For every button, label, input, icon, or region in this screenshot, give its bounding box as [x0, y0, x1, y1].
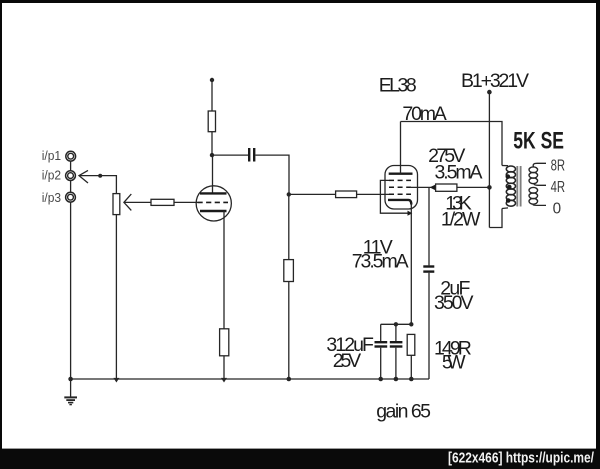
- node B1+ terminal: [487, 90, 492, 95]
- svg-text:25V: 25V: [333, 350, 362, 372]
- wire 2uF to ground rail: [428, 273, 430, 379]
- node V1 plate junction: [210, 153, 214, 157]
- node cathode rail dot 2: [409, 322, 413, 326]
- wire 149R to rail: [410, 355, 412, 379]
- potentiometer VR1: [113, 194, 120, 215]
- wire cathode resistor to rail: [223, 356, 225, 379]
- resistor cathode V1: [220, 329, 229, 356]
- wire supply to plate resistor: [211, 80, 213, 111]
- svg-text:70mA: 70mA: [402, 103, 446, 125]
- node B1 screen junction: [487, 185, 492, 190]
- transformer T1 primary winding: [506, 166, 515, 206]
- wire i/p2 selector to pot top: [79, 176, 116, 194]
- connector i/p2 jack: [66, 171, 76, 181]
- resistor plate load V1: [208, 111, 215, 132]
- wire EL38 screen to node: [410, 186, 436, 188]
- capacitor coupling bar left: [248, 148, 250, 162]
- svg-text:5K SE: 5K SE: [513, 128, 564, 155]
- node input wire dot: [98, 174, 102, 178]
- node primary dot 2: [507, 185, 512, 190]
- wire B1 supply down: [488, 92, 490, 227]
- node rail cathode dot: [221, 378, 227, 383]
- transformer T1 core: [516, 166, 518, 207]
- svg-text:3.5mA: 3.5mA: [435, 161, 483, 183]
- node rail grid leak dot: [287, 377, 292, 382]
- svg-text:0: 0: [553, 201, 562, 218]
- wire grid stopper to EL38 g1: [357, 193, 390, 195]
- resistor grid stopper EL38: [336, 191, 357, 198]
- wire secondary tap 4R: [534, 183, 546, 185]
- node B+ terminal first stage: [210, 78, 214, 82]
- svg-text:B1+321V: B1+321V: [461, 70, 529, 92]
- wire junction to EL38 grid stopper: [289, 193, 336, 195]
- svg-text:5W: 5W: [442, 352, 466, 374]
- triode V1 envelope: [196, 186, 231, 221]
- wire secondary tap 8R: [533, 163, 546, 167]
- arrow beam to cathode: [408, 211, 413, 216]
- pentode EL38 plate bar: [389, 172, 413, 174]
- arrow screen node: [430, 185, 436, 191]
- resistor 13K screen feed: [436, 184, 457, 191]
- arrow pot wiper: [124, 194, 131, 210]
- wire EL38 beam tie: [380, 180, 407, 213]
- wire 312uF cap A top lead: [380, 324, 382, 341]
- wire V1 cathode lead: [223, 211, 225, 329]
- svg-text:[622x466] https://upic.me/: [622x466] https://upic.me/: [448, 451, 594, 467]
- connector i/p3 jack: [66, 192, 76, 202]
- wire 312uF cap A bottom lead: [380, 348, 382, 379]
- resistor 149R cathode: [407, 334, 415, 355]
- wire plate lead V1: [212, 155, 214, 193]
- pentode EL38 g2 dashes: [389, 186, 411, 188]
- resistor grid leak: [284, 260, 294, 282]
- banner: [0, 449, 600, 469]
- pentode EL38 cathode bar: [388, 200, 411, 205]
- svg-text:i/p3: i/p3: [42, 190, 61, 205]
- ground symbol: [70, 379, 72, 397]
- transformer T1 secondary winding lower: [529, 187, 538, 204]
- capacitor 2uF bar bottom: [423, 270, 434, 272]
- node grid junction EL38: [287, 192, 291, 196]
- wire coupling cap to corner: [255, 155, 289, 194]
- triode V1 plate bar: [200, 192, 227, 194]
- svg-text:i/p1: i/p1: [42, 148, 61, 163]
- arrow input select: [79, 170, 88, 183]
- wire grid resistor to V1 grid: [174, 201, 198, 203]
- capacitor 2uF bar top: [423, 265, 434, 267]
- svg-text:4R: 4R: [551, 179, 566, 196]
- node rail ground dot: [68, 377, 73, 382]
- wire ground rail: [71, 378, 429, 380]
- node primary dot 3: [506, 198, 511, 203]
- wire pot bottom to ground rail: [115, 215, 117, 379]
- transformer T1 primary stubs: [502, 165, 508, 167]
- wire wiper to grid resistor: [124, 201, 151, 203]
- node rail 312uF B dot: [394, 377, 399, 382]
- node rail 149R dot: [409, 377, 414, 382]
- svg-text:8R: 8R: [551, 158, 566, 175]
- wire EL38 cathode lead: [410, 203, 412, 324]
- wire 312uF cap B top lead: [395, 324, 397, 341]
- node primary dot 1: [506, 174, 511, 179]
- transformer T1 secondary winding upper: [529, 167, 538, 184]
- capacitor 312uF B bars: [390, 341, 403, 343]
- wire plate line to transformer top: [401, 122, 503, 166]
- wire cathode node rail: [381, 323, 412, 325]
- capacitor 312uF A bars: [375, 341, 388, 343]
- svg-text:gain 65: gain 65: [376, 400, 431, 422]
- svg-text:EL38: EL38: [379, 75, 417, 97]
- svg-text:73.5mA: 73.5mA: [352, 251, 409, 273]
- connector i/p1 jack: [66, 151, 76, 161]
- capacitor coupling bar right: [253, 148, 255, 162]
- triode V1 grid dashes: [198, 201, 229, 203]
- wire plate resistor to plate node: [211, 132, 213, 155]
- wire screen node to 2uF cap: [428, 187, 430, 265]
- wire B1 to primary bottom: [489, 209, 502, 228]
- wire secondary tap 0: [533, 204, 546, 205]
- resistor grid stopper V1: [151, 199, 174, 205]
- wire plate node to coupling cap: [212, 154, 248, 156]
- svg-text:i/p2: i/p2: [42, 167, 61, 182]
- node rail pot dot: [113, 378, 119, 383]
- pentode EL38 g3 dashes: [389, 179, 411, 181]
- node cathode rail dot 1: [394, 322, 398, 326]
- wire 13K to B1 line: [457, 186, 490, 188]
- wire EL38 plate lead: [400, 122, 402, 174]
- triode V1 cathode bar: [200, 210, 227, 212]
- svg-text:1/2W: 1/2W: [441, 208, 481, 230]
- pentode EL38 g1 dashes: [389, 193, 411, 195]
- wire 312uF cap B bottom lead: [395, 348, 397, 379]
- wire input jack bus: [70, 156, 72, 379]
- wire junction to grid leak: [288, 194, 290, 259]
- pentode EL38 envelope: [385, 166, 418, 210]
- wire grid leak to rail: [288, 282, 290, 380]
- node rail 312uF A dot: [378, 377, 383, 382]
- svg-text:350V: 350V: [434, 292, 474, 314]
